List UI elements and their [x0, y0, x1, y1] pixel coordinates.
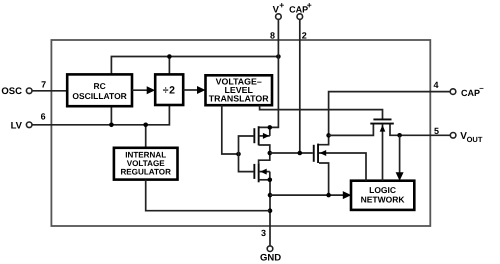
wire CAP+ pin down to pump node	[299, 19, 301, 153]
transistor Q3 (CAP- switch)	[313, 144, 366, 196]
transistor Q2 (N-channel, pump node to GND)	[253, 153, 269, 182]
wire CAP- pin to Q3 drain	[319, 92, 450, 145]
block INTERNAL VOLTAGE REGULATOR	[114, 148, 178, 180]
svg-text:7: 7	[41, 79, 46, 89]
wire drop to divide-by-2 top	[168, 57, 170, 75]
svg-text:CAP: CAP	[289, 5, 308, 15]
svg-text:4: 4	[434, 80, 439, 90]
wire top V+ supply rail	[111, 57, 278, 75]
pin 2 CAP+	[289, 0, 312, 41]
arrow divider to translator	[183, 89, 199, 91]
body lead with up arrow from logic	[382, 124, 384, 180]
svg-text:LOGIC: LOGIC	[369, 185, 396, 195]
block LOGIC NETWORK	[351, 181, 414, 210]
wire pump node to Q3 gate	[270, 152, 313, 154]
node gate tee	[236, 152, 241, 157]
wire gate tee to Q1/Q2 gates	[239, 136, 254, 172]
node on top rail feeding divider	[167, 54, 172, 59]
svg-text:+: +	[307, 0, 312, 10]
svg-text:LV: LV	[11, 120, 23, 131]
node Q2 source	[268, 178, 273, 183]
IC outer boundary box	[51, 40, 430, 226]
node Q1 drain / V+	[268, 125, 273, 130]
svg-text:–: –	[479, 84, 484, 93]
channel bar	[258, 126, 260, 145]
gate bar	[313, 145, 315, 162]
body lead with arrow	[260, 135, 270, 137]
channel bar	[258, 163, 260, 182]
svg-text:3: 3	[261, 228, 266, 238]
wire LV down to regulator top	[145, 125, 147, 148]
wire translator output down to inverter gates	[222, 105, 239, 154]
drain lead	[390, 124, 400, 135]
svg-text:2: 2	[302, 31, 307, 41]
arrow VOUT node down into logic network	[399, 135, 401, 173]
svg-text:GND: GND	[260, 253, 281, 264]
pin 4 CAP-	[434, 80, 485, 98]
wire Q3 drain node to Q4 source	[329, 124, 374, 135]
body lead with arrow	[260, 171, 270, 173]
svg-text:CAP: CAP	[461, 88, 480, 98]
svg-text:RC: RC	[93, 81, 105, 91]
svg-text:TRANSLATOR: TRANSLATOR	[209, 93, 269, 103]
svg-text:NETWORK: NETWORK	[361, 194, 406, 204]
wire LV rail to divider bottom	[32, 105, 169, 125]
gate bar	[253, 128, 255, 143]
arrow GND node into logic network	[270, 194, 344, 196]
source lead	[259, 179, 270, 181]
source lead	[259, 145, 270, 153]
node LV/regulator	[143, 123, 148, 128]
wire VOUT pin to Q4 drain node	[400, 134, 451, 136]
transistor Q1 (P-channel, V+ to pump node)	[253, 126, 269, 153]
wire translator output to Q4 gate	[260, 105, 383, 118]
pin 6 LV	[11, 112, 46, 132]
svg-text:6: 6	[41, 112, 46, 122]
wire V+ pin down to P-MOS drain	[259, 19, 279, 127]
svg-text:8: 8	[270, 31, 275, 41]
block VOLTAGE-LEVEL TRANSLATOR	[206, 75, 273, 105]
svg-text:+: +	[279, 0, 284, 10]
node VOUT	[397, 133, 402, 138]
wire LV up to oscillator bottom	[110, 106, 112, 125]
transistor Q4 (VOUT switch, horizontal)	[370, 119, 399, 181]
pin 3 GND	[260, 228, 281, 264]
node pump (CAP+)	[268, 151, 273, 156]
arrow oscillator to divider	[132, 89, 149, 91]
body lead with arrow to logic	[319, 153, 366, 181]
pin 7 OSC	[1, 79, 67, 97]
svg-text:÷2: ÷2	[163, 85, 176, 97]
gate bar	[373, 119, 391, 121]
channel bar	[370, 123, 394, 125]
pin 8 V+	[270, 0, 284, 41]
block RC OSCILLATOR	[67, 74, 132, 106]
source lead down	[319, 163, 329, 195]
pin 5 VOUT	[434, 126, 483, 144]
channel bar	[317, 144, 319, 163]
block divide-by-2	[155, 74, 183, 105]
node regulator branch	[268, 208, 273, 213]
svg-text:REGULATOR: REGULATOR	[120, 168, 171, 177]
svg-text:OSC: OSC	[1, 86, 22, 97]
node CAP+ line junction	[298, 151, 303, 156]
wire GND pin up into die	[269, 180, 271, 246]
node on top rail at V+ line	[276, 54, 281, 59]
drain lead	[259, 153, 270, 163]
svg-text:OUT: OUT	[467, 135, 483, 144]
gate bar	[253, 164, 255, 179]
node Q3 drain branch	[326, 133, 331, 138]
node LV/oscillator	[109, 123, 114, 128]
svg-text:OSCILLATOR: OSCILLATOR	[72, 91, 126, 101]
node Q3 source on logic wire	[326, 193, 331, 198]
wire GND net chain	[268, 193, 273, 198]
wire regulator bottom to GND line	[146, 180, 270, 211]
